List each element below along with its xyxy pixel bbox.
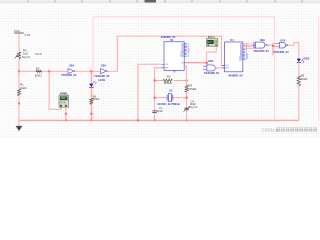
page border frame: [93, 17, 319, 122]
svg-text:8: 8: [175, 72, 176, 74]
svg-text:Q14: Q14: [180, 56, 183, 58]
wire LED1 to R6: [90, 88, 92, 98]
wire U9A out to U7A in: [267, 44, 273, 46]
svg-text:74HC04D_6V: 74HC04D_6V: [61, 74, 77, 77]
svg-text:U9A: U9A: [260, 38, 265, 42]
junction on R6 wire: [90, 113, 92, 115]
svg-text:74HC00D_6V: 74HC00D_6V: [273, 51, 289, 54]
IC U2 4060BD body: [161, 42, 189, 74]
wire R1 to rail: [18, 96, 20, 126]
wire R8 to rail: [298, 86, 300, 121]
wire U5A out to U3A in: [75, 70, 100, 72]
inverter U5A: [61, 64, 77, 78]
svg-text:O9: O9: [181, 63, 183, 65]
wire U2 RTC pin to crystal column: [155, 68, 162, 111]
wire R3 line: [19, 70, 68, 72]
LED LED2: [297, 57, 310, 63]
svg-text:Q12: Q12: [239, 60, 242, 62]
svg-text:LED2: LED2: [303, 57, 310, 61]
svg-text:470kΩ: 470kΩ: [188, 87, 196, 91]
top ruler bar: [0, 0, 320, 3]
svg-text:4060BD_5V: 4060BD_5V: [161, 35, 176, 39]
wire U6A out to U1: [215, 67, 224, 69]
crystal X1: [155, 88, 187, 106]
svg-text:74HC04D_6V: 74HC04D_6V: [94, 75, 110, 78]
svg-text:1: 1: [246, 60, 247, 62]
wire XFC1 pin to U6A input: [207, 46, 217, 66]
resistor R8: [297, 74, 307, 86]
svg-text:RST: RST: [225, 68, 228, 70]
potentiometer R4: [15, 48, 43, 59]
junction on XMM wire: [65, 113, 67, 115]
IC U1 4040BD body: [222, 38, 248, 78]
inverter U3A: [94, 64, 110, 78]
wire U2 O9 to node: [187, 62, 207, 64]
svg-text:U6A: U6A: [208, 59, 213, 63]
watermark: [262, 128, 318, 133]
NAND gate U9A (4-input): [253, 38, 269, 53]
svg-text:74HC08D_6V: 74HC08D_6V: [204, 72, 220, 75]
svg-text:X1: X1: [169, 88, 173, 92]
multimeter XMM1: [59, 92, 69, 108]
junction node R3/XMM tap: [48, 70, 50, 72]
svg-text:VCC: VCC: [14, 29, 21, 33]
svg-text:U7A: U7A: [280, 38, 285, 42]
junction LED1 tap: [90, 70, 92, 72]
resistor R6: [90, 94, 100, 104]
AND gate U6A: [203, 59, 220, 75]
svg-text:123: 123: [208, 41, 213, 44]
svg-text:R2: R2: [167, 74, 171, 78]
wires U1 outputs to U9A inputs: [243, 44, 255, 48]
svg-text:10kΩ: 10kΩ: [20, 86, 27, 90]
svg-text:3: 3: [188, 56, 189, 58]
resistor R5: [185, 84, 196, 93]
svg-text:4040BD_5V: 4040BD_5V: [228, 74, 243, 78]
IC U2 4060BD label: [161, 35, 176, 42]
wire node down to XMM1 left pin: [49, 71, 61, 109]
wire VCC to R4: [18, 33, 20, 52]
svg-text:74HC20N_6V: 74HC20N_6V: [253, 50, 269, 53]
node junction at R3 left: [18, 70, 20, 72]
svg-text:300kΩ: 300kΩ: [164, 81, 172, 85]
svg-text:50 %: 50 %: [35, 52, 42, 56]
svg-text:U1: U1: [230, 38, 234, 42]
svg-text:R3: R3: [36, 66, 40, 70]
ground symbol: [16, 126, 23, 131]
wire U3A out up and across top: [108, 36, 225, 71]
svg-text:22pF: 22pF: [157, 109, 164, 113]
ground rail wire (bottom): [19, 119, 299, 121]
wire LED2 to R8: [298, 63, 300, 76]
resistor R3: [35, 66, 42, 77]
svg-text:5.0V: 5.0V: [25, 33, 31, 37]
wire R4 to node: [18, 59, 20, 89]
LED LED1: [89, 78, 106, 87]
wire R6 to rail: [90, 104, 92, 120]
variable capacitor C4: [183, 99, 197, 112]
svg-text:U2: U2: [170, 38, 174, 42]
svg-text:RST: RST: [165, 68, 168, 70]
wire down to LED1: [90, 71, 92, 83]
resistor R2: [155, 74, 187, 85]
power VCC: [14, 29, 31, 37]
capacitor C1: [152, 106, 163, 113]
svg-text:U3A: U3A: [101, 64, 106, 68]
wire U2 MR pin to ground column: [138, 64, 161, 120]
svg-text:560Ω: 560Ω: [93, 97, 100, 101]
svg-text:Key=A: Key=A: [189, 105, 197, 109]
wire XMM1 right pin to rail: [65, 107, 67, 120]
NAND gate U7A: [273, 38, 289, 54]
wire U2 CTC pin to R5 column: [184, 66, 186, 85]
svg-text:Key=A: Key=A: [22, 55, 30, 59]
frequency counter XFC1: [206, 35, 218, 46]
resistor R1: [17, 82, 26, 96]
svg-text:500Ω: 500Ω: [35, 74, 42, 78]
svg-text:560Ω: 560Ω: [301, 77, 308, 81]
wire U7A out to LED2 column: [288, 43, 299, 59]
svg-text:LED1: LED1: [98, 78, 105, 82]
svg-text:U5A: U5A: [69, 64, 74, 68]
junction dot on left column: [18, 103, 20, 105]
